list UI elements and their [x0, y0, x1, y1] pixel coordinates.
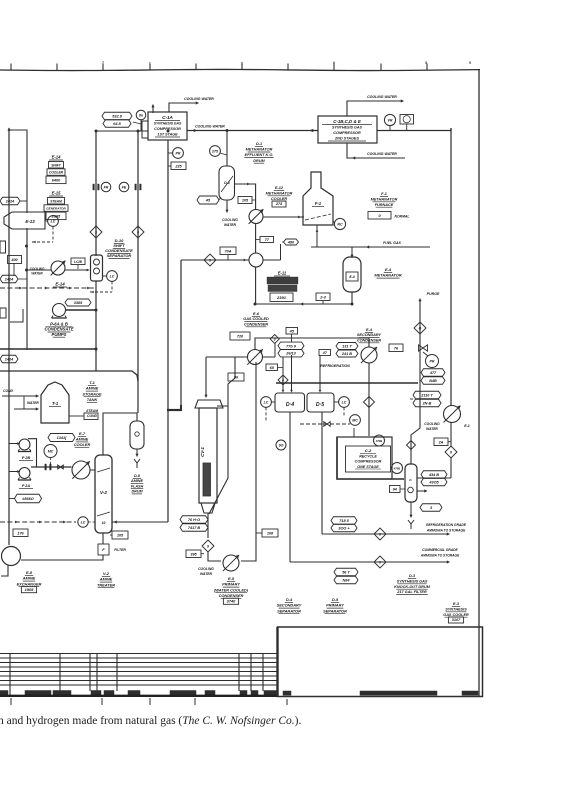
diamond on E-4 drop [364, 397, 375, 408]
hexagon flags 474B/4305 [421, 471, 447, 479]
wire: drop x=283 to D-4 [282, 357, 284, 391]
svg-text:E-4: E-4 [349, 275, 354, 279]
svg-text:METHANATOR: METHANATOR [266, 191, 293, 195]
svg-text:N84: N84 [343, 579, 351, 583]
svg-text:470B: 470B [375, 439, 382, 443]
svg-text:70A: 70A [225, 249, 232, 253]
drawing frame right border [478, 69, 480, 697]
svg-text:176: 176 [17, 531, 24, 535]
svg-text:COND: COND [87, 414, 98, 418]
svg-text:E-11: E-11 [278, 271, 287, 276]
svg-text:COOLING: COOLING [424, 422, 440, 426]
svg-text:C-1B,C,D & E: C-1B,C,D & E [333, 119, 362, 124]
svg-text:241 B: 241 B [341, 352, 352, 356]
svg-text:SYNTHESIS GAS: SYNTHESIS GAS [332, 126, 362, 130]
svg-text:SEPARATOR: SEPARATOR [277, 608, 301, 613]
svg-text:GENERATOR: GENERATOR [46, 207, 66, 211]
wire: D-9 feed jog [411, 383, 420, 464]
svg-text:45: 45 [205, 199, 211, 203]
exchanger E-1 on right header [444, 406, 461, 423]
wire: C-2 loop left/bottom [337, 437, 404, 479]
wire: CV-1 cap to side line [217, 405, 228, 407]
svg-text:SECONDARY: SECONDARY [357, 333, 382, 337]
left-edge partial box y=245 [0, 241, 6, 253]
svg-text:400: 400 [10, 258, 18, 262]
svg-text:3OO +: 3OO + [338, 527, 350, 531]
svg-text:45: 45 [289, 329, 295, 333]
svg-text:GAS COOLER: GAS COOLER [443, 613, 469, 617]
wire: D-9 bottoms arrow + strainer [410, 502, 412, 516]
svg-text:SECONDARY: SECONDARY [277, 603, 302, 608]
box 76 [389, 344, 403, 352]
svg-text:1ST STAGE: 1ST STAGE [157, 133, 178, 137]
svg-text:MC: MC [48, 449, 54, 453]
exchanger E-12 methanator cooler [249, 210, 263, 224]
pump P-2B [19, 439, 30, 450]
svg-text:ONE STAGE: ONE STAGE [357, 465, 379, 469]
svg-text:PUMPS: PUMPS [52, 332, 67, 337]
column CV-1 cap [195, 400, 223, 408]
diamond on D-9 feed [407, 441, 416, 450]
svg-text:(WATER COOLED): (WATER COOLED) [214, 587, 249, 592]
svg-text:COOLER: COOLER [74, 442, 91, 447]
hexagon flag 3385 [65, 299, 91, 306]
svg-text:26/13: 26/13 [285, 352, 296, 356]
wire: pump suction y=349 [0, 348, 96, 350]
wire: CV-1 side line x=235/228 [209, 357, 235, 514]
svg-text:FUEL GAS: FUEL GAS [383, 241, 401, 245]
vessel D-10 shift condensate separator [91, 255, 103, 281]
svg-text:6: 6 [333, 61, 335, 65]
wire: CV-1 feed line y=357 [206, 356, 248, 358]
box 105 [238, 197, 252, 204]
diamond node 5 [90, 226, 102, 238]
instrument 275 [210, 146, 221, 157]
svg-text:AMINE: AMINE [85, 386, 99, 391]
hexagon flags 532.9 / 64.8 [102, 112, 132, 120]
vessel E-13 steam generator (horizontal drum) [4, 212, 45, 229]
svg-text:477: 477 [429, 371, 437, 375]
instrument LC left of D-4 [261, 397, 272, 408]
svg-text:F-1: F-1 [381, 192, 387, 196]
instrument FR [101, 182, 111, 192]
wire: amine line y=467 [31, 466, 72, 468]
svg-text:COOLING: COOLING [30, 267, 45, 271]
wire: dash-dot instrument line y=288 [0, 287, 96, 289]
wire: E-6 right to diamond riser [263, 356, 276, 358]
wire: right header below diamond [450, 458, 452, 478]
title block top-left stub texts [360, 691, 437, 695]
box 720 [230, 332, 250, 340]
svg-text:105: 105 [242, 199, 249, 203]
box 2-3 on bottoms line [316, 293, 330, 301]
wire: shift gas vertical x=96 lower [95, 281, 97, 350]
svg-text:274: 274 [275, 202, 283, 206]
svg-text:C-1A: C-1A [162, 115, 173, 120]
dashed control line from LC [52, 227, 54, 243]
wire: filter to E-8 [21, 555, 103, 560]
svg-text:METHANATOR: METHANATOR [371, 197, 398, 201]
filter box [98, 544, 109, 555]
svg-text:TREATER: TREATER [97, 582, 115, 587]
svg-text:DRUM: DRUM [131, 490, 143, 494]
wire: treater feed y=522 into V-2 [112, 521, 168, 523]
hexagon flags 2110T/2N-B [413, 391, 441, 399]
box 65 [266, 364, 278, 371]
left-edge partial box y=310 [0, 308, 6, 318]
wire: D-1 to E-12 [234, 184, 256, 210]
svg-text:VR: VR [388, 118, 393, 122]
svg-text:SYNTHESIS: SYNTHESIS [445, 607, 467, 611]
svg-text:2ND STAGES: 2ND STAGES [334, 137, 359, 141]
wire: fuel gas line y=247 [311, 246, 430, 248]
svg-text:RECYCLE: RECYCLE [359, 455, 377, 459]
wire: D-9 vapor arrow right [417, 490, 426, 492]
svg-text:F-1: F-1 [315, 201, 322, 206]
svg-text:2195: 2195 [51, 214, 61, 218]
svg-text:5: 5 [95, 230, 97, 234]
wire: F-1 to fuel gas line [316, 225, 318, 247]
svg-text:532.9: 532.9 [112, 115, 122, 119]
svg-text:9: 9 [379, 560, 381, 564]
hexagon flag 1424 (top) [0, 197, 20, 205]
svg-text:47: 47 [322, 351, 328, 355]
svg-text:LC/B: LC/B [74, 260, 82, 264]
box 0 normal [368, 212, 391, 220]
svg-text:PR: PR [176, 151, 181, 155]
svg-text:FR: FR [104, 185, 109, 189]
hexagon flags 77L/26-13 [278, 342, 304, 350]
svg-text:E-14: E-14 [52, 155, 62, 160]
svg-text:9: 9 [209, 258, 211, 262]
instrument VRB [384, 114, 395, 125]
svg-text:T-1: T-1 [89, 380, 95, 385]
svg-text:64.8: 64.8 [113, 122, 121, 126]
wire: right header vertical x=451 [450, 128, 452, 406]
wire: E-12 to E-11 [255, 224, 257, 254]
svg-text:COOLING: COOLING [222, 218, 238, 222]
svg-text:COOLING WATER: COOLING WATER [367, 152, 397, 156]
svg-text:N4B: N4B [429, 379, 437, 383]
wire: C-1A top vent arrow [152, 105, 154, 113]
box instrument [400, 115, 414, 125]
hexagon flags 718-5/300 [331, 517, 357, 525]
wire: loop elbow at x=168-181 [167, 409, 182, 411]
svg-text:STEAM: STEAM [50, 199, 62, 203]
svg-text:STEAM: STEAM [86, 409, 98, 413]
svg-text:V-2: V-2 [103, 571, 110, 576]
svg-text:395: 395 [190, 552, 197, 556]
hexagon flag 1424 (mid) [0, 275, 18, 283]
svg-text:FLASH: FLASH [131, 484, 144, 488]
wire: header y=131 left segment [96, 130, 148, 132]
svg-text:6: 6 [137, 230, 139, 234]
svg-text:y: y [241, 61, 243, 65]
instrument 470B bottom [392, 463, 403, 474]
diamond node 9 [204, 254, 216, 266]
svg-text:EFFLUENT K.O.: EFFLUENT K.O. [245, 153, 274, 157]
wire: long vertical x=138 (to D-6) [137, 131, 139, 413]
svg-text:3385: 3385 [74, 301, 83, 305]
dashed control from D-10 LC [111, 282, 113, 293]
wire: P-2B suction [9, 443, 19, 445]
svg-text:7: 7 [102, 61, 104, 65]
vessel D-6 [130, 421, 144, 449]
materials table dark data band [0, 691, 8, 696]
orifice plate left [93, 184, 95, 190]
instrument LC at D-10 [107, 271, 118, 282]
svg-text:COOLING WATER: COOLING WATER [367, 95, 397, 99]
svg-text:9: 9 [450, 450, 452, 454]
wire: pump discharge y=310 [66, 309, 96, 311]
svg-text:COOLING WATER: COOLING WATER [184, 97, 214, 101]
svg-text:CV-1: CV-1 [200, 447, 205, 457]
diamond below CV-1 [202, 540, 214, 552]
svg-text:720: 720 [237, 335, 244, 339]
svg-text:217 GAL FILTER: 217 GAL FILTER [396, 590, 427, 594]
separator D-5 box [307, 393, 334, 412]
diamond on drop x=283 [278, 375, 288, 385]
svg-text:#866O: #866O [22, 497, 33, 501]
svg-text:E-13: E-13 [25, 219, 35, 224]
hexagon flag 45 [197, 196, 219, 204]
svg-text:T-1: T-1 [52, 401, 59, 406]
svg-text:D·4: D·4 [286, 402, 294, 408]
svg-text:434 B: 434 B [428, 473, 439, 477]
wire: C-1A discharge header y=130 [187, 130, 318, 132]
wire: E-11 down to R-1 bottoms line [255, 267, 257, 304]
svg-text:8: 8 [274, 337, 276, 341]
svg-text:9: 9 [207, 544, 209, 548]
wire: C-1A cooling water out [169, 103, 198, 112]
instrument LC on E-13 [48, 216, 59, 227]
wire: separator feed arrows [282, 390, 284, 393]
wire: commercial grade ammonia line y=562 [290, 561, 448, 563]
svg-text:CONDENSER: CONDENSER [244, 322, 269, 326]
svg-text:D-1: D-1 [256, 142, 262, 146]
instrument BO [136, 110, 146, 120]
svg-text:225: 225 [174, 164, 182, 168]
wire: R-1 bottoms corner [351, 292, 353, 304]
svg-text:1424: 1424 [5, 358, 14, 362]
svg-text:E-5: E-5 [228, 576, 235, 581]
wire: E-6 top corner to E-4 [255, 338, 369, 350]
diamond node 6 [132, 226, 144, 238]
svg-text:COMPRESSOR: COMPRESSOR [333, 131, 361, 135]
svg-text:D-8: D-8 [134, 474, 141, 478]
diamond on purge line [414, 322, 426, 334]
svg-text:10: 10 [102, 521, 106, 525]
wire: E-7 to V-2 [90, 469, 95, 471]
box 94 [390, 486, 401, 493]
wire: E-12 to F-1 furnace [263, 216, 304, 218]
diamond node 8 [270, 335, 279, 344]
svg-text:5: 5 [425, 61, 427, 65]
svg-text:2A: 2A [438, 440, 444, 444]
box 90 [228, 373, 244, 381]
pump P-2A [19, 468, 30, 479]
instrument FE [119, 182, 129, 192]
wire: C-1B feed arrow [312, 129, 315, 132]
wire: E-11 right riser [263, 259, 281, 261]
ruler ticks [10, 64, 12, 71]
wire: right header below E-1 [450, 422, 452, 447]
hexagon flags 56T/N84 [334, 568, 358, 576]
svg-text:131 T: 131 T [342, 345, 352, 349]
pump P-6A/B condensate pump [53, 304, 66, 317]
svg-text:COND: COND [3, 389, 13, 393]
orifice on amine line [45, 464, 47, 470]
compressor C-1B box [318, 116, 377, 143]
svg-text:D-5: D-5 [332, 597, 339, 602]
svg-text:9: 9 [379, 532, 381, 536]
title block tick [286, 699, 288, 705]
dash-dot level line y=520 [0, 521, 76, 523]
svg-text:NORMAL: NORMAL [395, 215, 410, 219]
hexagon flag 480 [284, 239, 299, 245]
hexagon flag 8660 [15, 494, 42, 503]
hexagon flags 1014-O/7417B [180, 516, 208, 524]
wire: E-14 cooler line y=270 [27, 269, 52, 271]
wire: CV-1 bottoms down [207, 513, 209, 538]
svg-text:COOLER: COOLER [49, 171, 64, 175]
furnace F-1 [303, 172, 333, 225]
exchanger E-8 (amine exchanger) [2, 547, 21, 566]
svg-text:AMINE: AMINE [75, 437, 89, 442]
wire: drop x=320 to D-5 [319, 355, 321, 391]
wire: E-4 drop x=368 [368, 363, 370, 436]
svg-text:7417 B: 7417 B [188, 526, 201, 530]
svg-text:D-3: D-3 [409, 574, 416, 578]
exchanger E-4 secondary condenser [361, 347, 377, 363]
ruler line (page top border) [0, 69, 480, 70]
svg-text:FE: FE [122, 185, 127, 189]
svg-text:PURGE: PURGE [427, 292, 440, 296]
svg-text:PRIMARY: PRIMARY [326, 603, 344, 608]
box 225 [171, 162, 186, 170]
svg-text:WATER: WATER [27, 401, 39, 405]
wire: P-2B discharge elbow [28, 439, 37, 467]
svg-text:E-3: E-3 [453, 602, 460, 606]
svg-text:P 2B: P 2B [22, 456, 31, 460]
svg-text:CONDENSER: CONDENSER [357, 338, 382, 342]
wire: D-5 bottoms to refrigeration ammonia [321, 412, 323, 534]
svg-text:DRUM: DRUM [253, 159, 265, 163]
wire: CV-1 bottoms to E-5 [208, 552, 221, 561]
heat exchanger E-11 (circle) [249, 253, 263, 267]
svg-text:E-12: E-12 [275, 186, 284, 190]
svg-text:METHANATOR: METHANATOR [246, 148, 273, 152]
box 108 [262, 529, 278, 537]
svg-text:KNOCK-OUT DRUM: KNOCK-OUT DRUM [394, 585, 430, 589]
box LC/B [71, 258, 85, 265]
svg-text:E-15: E-15 [52, 191, 62, 196]
vessel D-1 [219, 166, 235, 200]
svg-text:n and hydrogen made from natur: n and hydrogen made from natural gas (Th… [0, 715, 301, 727]
vessel R-1/E-4 methanator [343, 257, 361, 292]
wire: V-2 bottoms [102, 533, 104, 544]
table tick marks [10, 698, 12, 705]
diamond on right header [445, 446, 457, 458]
svg-text:COMPRESSOR: COMPRESSOR [355, 460, 382, 464]
wire: CV-1 feed arrow [205, 357, 207, 396]
svg-text:6400: 6400 [52, 178, 61, 182]
svg-text:1424: 1424 [6, 200, 15, 204]
instrument circle near D-4 LC [276, 440, 286, 450]
wire: stub into C-2 top [353, 428, 355, 437]
svg-text:6: 6 [282, 378, 284, 382]
box 395 [186, 550, 201, 558]
svg-text:WATER: WATER [31, 272, 43, 276]
wire: D-6 bottoms arrow + strainer [136, 449, 138, 455]
wire: purge line x=420 [419, 300, 421, 383]
svg-text:AMINE: AMINE [99, 577, 113, 582]
wire: D-1 feed drop x=227 [226, 131, 228, 167]
svg-text:2110 T: 2110 T [420, 394, 433, 398]
wire: shift gas vertical x=96 upper [95, 131, 97, 256]
hexagon flags 477/N4B [421, 369, 445, 377]
svg-text:REFRIGERATION: REFRIGERATION [320, 364, 350, 368]
column CV-1 body [199, 408, 217, 503]
instrument MC at E-7 [44, 445, 57, 458]
svg-text:E-14: E-14 [55, 282, 65, 287]
instrument MC [350, 415, 361, 426]
compressor C-1A box [148, 112, 187, 140]
wire: C-1B cooling water bottom [347, 143, 405, 158]
svg-text:STORAGE: STORAGE [82, 391, 102, 396]
svg-text:480: 480 [287, 241, 295, 245]
control valve on amine line [58, 465, 64, 469]
wire: main left header vertical x=9 [8, 128, 11, 131]
svg-text:MC: MC [352, 418, 358, 422]
wire: C-1B cooling water out top [347, 101, 403, 116]
wire: C-1A vertical drop x=168 [167, 140, 169, 522]
svg-text:2N·B: 2N·B [422, 402, 432, 406]
svg-text:CONDENSER: CONDENSER [219, 593, 244, 598]
svg-text:718 5: 718 5 [339, 519, 349, 523]
box 105 at V-2 [112, 531, 128, 539]
svg-text:COOLER: COOLER [271, 197, 288, 201]
svg-text:SYNTHESIS GAS: SYNTHESIS GAS [154, 122, 182, 126]
wire: D-1 bottoms arrow [226, 200, 228, 211]
dashed MC to line [50, 458, 52, 465]
svg-text:LC: LC [81, 520, 86, 524]
wire: V-2 overhead to D-6 [103, 413, 137, 455]
svg-text:D-1: D-1 [224, 181, 230, 185]
svg-text:3740: 3740 [227, 599, 236, 604]
svg-text:D·5: D·5 [316, 402, 324, 408]
wire: condensate header y=383 [276, 382, 418, 384]
instrument PR at valve [426, 355, 439, 368]
control valve on recycle [419, 345, 428, 351]
wire: E-5 to recycle riser x=256 [241, 362, 256, 561]
instrument RC at F-1 [334, 218, 345, 229]
svg-text:TANK: TANK [87, 397, 99, 402]
box 2A [434, 438, 448, 446]
tank T-1 amine storage [41, 382, 69, 423]
svg-text:WATER: WATER [200, 572, 213, 576]
dashed control from D-5 LC [343, 407, 345, 417]
materials table rules [0, 653, 277, 655]
box 70A [220, 247, 236, 255]
svg-text:FURNACE: FURNACE [375, 203, 394, 207]
box 47 [319, 350, 331, 356]
exchanger E-14 (shift cooler) [51, 261, 65, 275]
svg-text:LC: LC [264, 400, 269, 404]
title block outline [278, 627, 483, 697]
hexagon flag 1424 (lower) [0, 355, 18, 363]
wire: steam cond line [69, 415, 84, 417]
